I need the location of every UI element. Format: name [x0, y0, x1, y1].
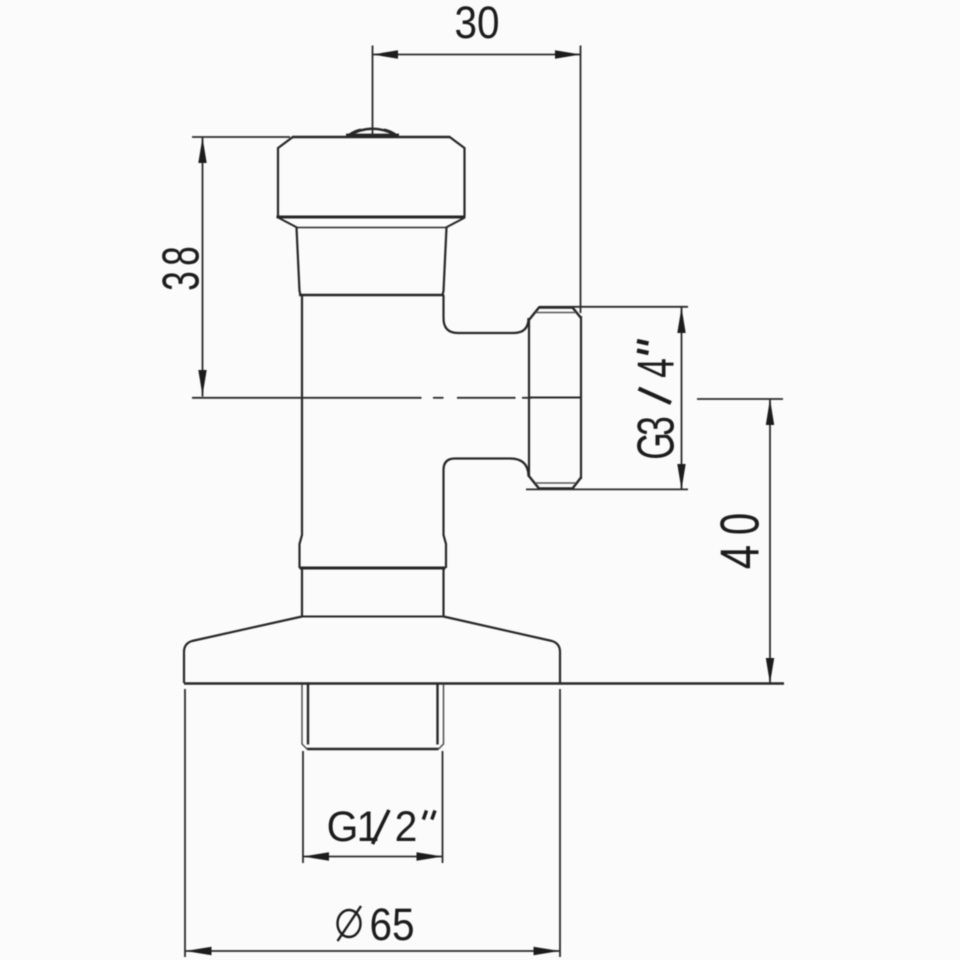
- centerline long dash: [457, 397, 516, 399]
- svg-text:G: G: [327, 802, 359, 850]
- arrow G1/2 left: [303, 852, 329, 860]
- arrow 40 up: [766, 399, 774, 425]
- arrow G1/2 right: [417, 852, 443, 860]
- branch top fillet into nut: [514, 318, 529, 333]
- side port nut right face: [580, 316, 582, 479]
- dim 30 extension right: [580, 46, 582, 314]
- side port nut bottom chamfer+edge: [529, 476, 582, 489]
- dim 30 line: [373, 54, 581, 56]
- dim O65 extension left: [184, 689, 186, 957]
- bottom pipe left outer line: [302, 685, 307, 750]
- arrow O65 right: [534, 947, 560, 955]
- cap lower chamfer right: [446, 218, 464, 228]
- svg-text:4: 4: [709, 545, 771, 569]
- dim G3/4 extension bottom: [526, 488, 688, 490]
- arrow 38 down: [198, 370, 206, 396]
- dim G1/2 extension left: [302, 751, 304, 863]
- dim G3/4 extension top: [539, 306, 688, 308]
- label G1/2: [327, 802, 435, 850]
- neck left edge: [297, 228, 301, 296]
- arrow 30 right: [555, 50, 581, 58]
- svg-text:3: 3: [628, 416, 685, 436]
- label 38 (rotated): [153, 246, 210, 291]
- mid connector thick line: [300, 567, 446, 570]
- body tube right line upper with fillet to branch: [444, 295, 459, 333]
- cap lower chamfer left: [279, 218, 297, 228]
- connector right line: [442, 568, 444, 617]
- thread crest line right: [436, 685, 438, 745]
- svg-text:30: 30: [454, 0, 499, 49]
- arrow 38 up: [198, 138, 206, 164]
- svg-text:65: 65: [369, 900, 414, 950]
- screw dome end thickening right: [384, 130, 397, 136]
- branch bottom fillet into nut: [510, 459, 529, 477]
- branch top line: [458, 332, 514, 334]
- dim 30 extension left: [372, 46, 374, 137]
- bottom pipe end edge: [307, 748, 439, 750]
- screw dome arc: [347, 129, 398, 137]
- valve bonnet cap top edge: [293, 136, 451, 139]
- centerline segment long: [192, 397, 422, 399]
- cap chamfer ring bottom line: [297, 227, 446, 229]
- dim G3/4 line: [681, 308, 683, 490]
- label G3/4 (rotated): [628, 341, 685, 460]
- screw dome base: [346, 134, 399, 138]
- arrow 30 left: [373, 50, 399, 58]
- svg-text:3: 3: [153, 271, 210, 291]
- svg-text:8: 8: [153, 246, 210, 266]
- dim 40 line: [769, 399, 771, 684]
- arrow G3/4 up: [677, 308, 685, 334]
- flange plateau line: [302, 616, 444, 618]
- cap shoulder line: [277, 216, 466, 219]
- side port nut top chamfer+edge: [529, 308, 582, 321]
- dim 40 extension top: [697, 398, 783, 400]
- svg-text:0: 0: [709, 513, 771, 535]
- label 40 (rotated): [709, 513, 771, 569]
- thread crest line left: [307, 685, 309, 745]
- flange right slope and edge: [444, 617, 561, 684]
- arrow 40 down: [766, 658, 774, 684]
- svg-text:4: 4: [628, 358, 685, 378]
- neck bottom line: [299, 294, 444, 297]
- branch bottom line: [455, 457, 510, 459]
- bottom pipe right outer line: [439, 685, 444, 750]
- centerline dash: [433, 397, 444, 399]
- dim O65 extension right: [559, 689, 561, 957]
- arrow O65 left: [186, 947, 212, 955]
- body tube right line lower with fillet from branch: [444, 459, 456, 569]
- valve bonnet cap left side: [278, 137, 294, 217]
- arrow G3/4 down: [677, 464, 685, 490]
- side port nut bottom under-chamfer line: [536, 482, 577, 484]
- dim 38 line: [202, 138, 204, 397]
- wall line (flange bottom, extends right to 40-dim): [184, 682, 784, 685]
- dim G1/2 extension right: [442, 751, 444, 863]
- body tube left line: [300, 295, 303, 568]
- centerline through nut: [529, 397, 582, 399]
- centerline dash 2: [522, 397, 532, 399]
- side port nut top under-chamfer line: [536, 312, 577, 314]
- side port nut left face: [528, 319, 530, 476]
- valve bonnet cap right side: [449, 137, 465, 217]
- dim O65 line: [186, 950, 560, 952]
- label diameter symbol: [338, 906, 362, 941]
- flange left slope and edge: [184, 617, 302, 684]
- neck right edge: [443, 228, 447, 296]
- dim G1/2 line: [303, 856, 443, 858]
- connector left line: [301, 568, 303, 617]
- svg-text:2: 2: [395, 802, 418, 850]
- dim 38 extension top: [192, 136, 290, 138]
- svg-text:1: 1: [357, 802, 380, 850]
- screw dome end thickening left: [349, 130, 362, 136]
